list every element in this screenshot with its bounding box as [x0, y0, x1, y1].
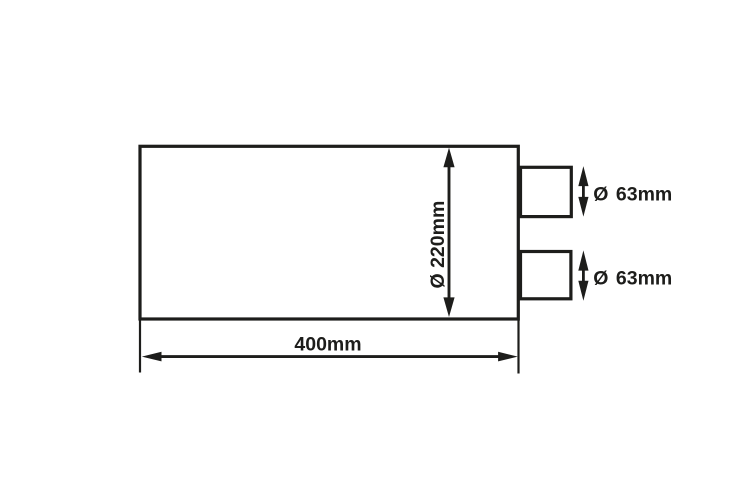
svg-text:Ø 220mm: Ø 220mm	[427, 201, 449, 289]
svg-text:400mm: 400mm	[294, 334, 361, 356]
svg-text:Ø 63mm: Ø 63mm	[593, 183, 672, 205]
svg-text:Ø 63mm: Ø 63mm	[593, 267, 672, 289]
